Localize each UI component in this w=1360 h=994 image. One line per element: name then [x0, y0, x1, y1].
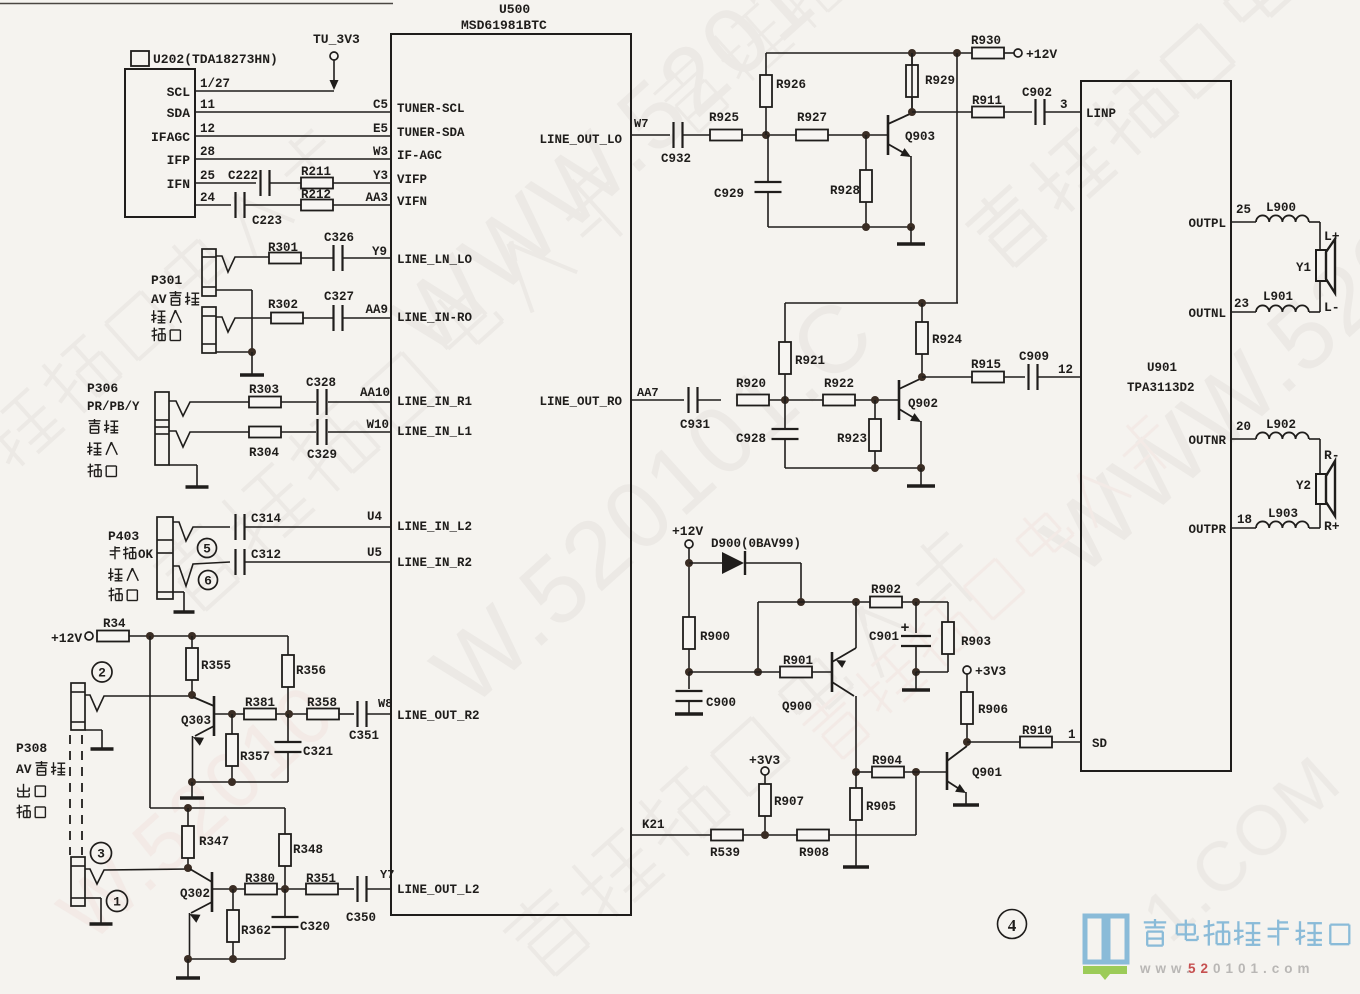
svg-text:R915: R915 [971, 358, 1001, 372]
resistor R302 [271, 313, 303, 324]
jack switch contact B [216, 317, 271, 332]
svg-text:OUTPL: OUTPL [1188, 217, 1226, 231]
power +12V Q903 [1014, 49, 1022, 57]
svg-text:R212: R212 [301, 188, 331, 202]
resistor R303 [249, 397, 281, 408]
svg-text:R381: R381 [245, 696, 275, 710]
svg-text:C932: C932 [661, 152, 691, 166]
svg-text:24: 24 [200, 191, 216, 205]
jack switch contact 6 [173, 562, 230, 586]
capacitor C929 [767, 135, 769, 182]
capacitor C326 [332, 245, 334, 271]
wire Q902 stage bottom [785, 467, 921, 469]
svg-text:+3V3: +3V3 [749, 753, 780, 768]
wire pin23 [1231, 311, 1256, 313]
dashed connector lines [69, 735, 71, 855]
svg-text:4: 4 [1008, 916, 1017, 935]
svg-text:C5: C5 [373, 98, 388, 112]
svg-text:+12V: +12V [672, 524, 703, 539]
ground P308 jack3 [85, 897, 101, 899]
ground P306 [169, 464, 197, 466]
svg-text:LINP: LINP [1086, 107, 1116, 121]
svg-text:R302: R302 [268, 298, 298, 312]
svg-text:R920: R920 [736, 377, 766, 391]
svg-text:C329: C329 [307, 448, 337, 462]
transistor Q302 [211, 872, 214, 912]
ground Q902 stage [920, 468, 922, 486]
inductor L902 [1256, 432, 1309, 439]
wire AA7 LINE_OUT_RO [631, 399, 684, 401]
connector P301 jack A [202, 249, 216, 296]
svg-text:R356: R356 [296, 664, 326, 678]
svg-text:AA3: AA3 [365, 191, 388, 205]
resistor R907 [759, 784, 771, 816]
ground Q302 stage [187, 959, 189, 978]
resistor R902 [870, 597, 902, 608]
svg-text:0101.com: 0101.com [1213, 961, 1315, 976]
svg-text:AA9: AA9 [365, 303, 388, 317]
resistor R357 [231, 714, 233, 735]
resistor R905 [855, 772, 857, 788]
svg-text:OUTNL: OUTNL [1188, 307, 1226, 321]
connector P306 [155, 392, 169, 465]
connector P403 [157, 517, 173, 599]
svg-text:IFN: IFN [167, 177, 190, 192]
ground C900 [688, 712, 690, 714]
capacitor C327 [332, 305, 334, 331]
wire Q902 emitter [920, 421, 922, 468]
resistor R351 [306, 884, 338, 895]
resistor R901 [780, 667, 812, 678]
jack switch contact R1 [169, 401, 249, 416]
node circled 3 [91, 843, 112, 864]
logo book icon [1085, 916, 1127, 962]
node circled 5 [198, 539, 217, 558]
connector P301 jack B [202, 307, 216, 353]
jack switch contact A [216, 256, 269, 272]
svg-text:R380: R380 [245, 872, 275, 886]
svg-text:C901: C901 [869, 630, 899, 644]
svg-text:LINE_IN_L2: LINE_IN_L2 [397, 520, 472, 534]
svg-text:C902: C902 [1022, 86, 1052, 100]
resistor R923 [874, 400, 876, 419]
svg-text:1: 1 [1068, 728, 1076, 742]
svg-text:C909: C909 [1019, 350, 1049, 364]
svg-text:12: 12 [1058, 363, 1073, 377]
svg-text:C351: C351 [349, 729, 379, 743]
svg-text:C320: C320 [300, 920, 330, 934]
wire +12V mid rail [785, 302, 958, 304]
svg-text:C928: C928 [736, 432, 766, 446]
wire up to Q901 base node [915, 772, 917, 835]
resistor R922 [823, 395, 855, 406]
capacitor C328 [316, 389, 318, 415]
svg-text:R930: R930 [971, 34, 1001, 48]
svg-text:1: 1 [113, 895, 121, 910]
capacitor C222 [259, 170, 261, 196]
resistor R915 [972, 372, 1004, 383]
transistor Q303 [213, 696, 216, 736]
wire Q902 collector [918, 373, 926, 381]
pin IFN wire 25 [195, 182, 256, 184]
svg-text:18: 18 [1237, 513, 1252, 527]
svg-text:R911: R911 [972, 94, 1002, 108]
resistor R347 [187, 808, 189, 826]
wire Q303 stage bottom [192, 781, 288, 783]
svg-text:LINE_IN_R1: LINE_IN_R1 [397, 395, 472, 409]
wire R905 to ground [855, 820, 857, 866]
svg-text:Y7: Y7 [380, 868, 394, 882]
svg-text:LINE_OUT_L2: LINE_OUT_L2 [397, 883, 480, 897]
svg-text:R923: R923 [837, 432, 867, 446]
wire AA10 LINE_IN_R1 [328, 401, 391, 403]
svg-text:C929: C929 [714, 187, 744, 201]
svg-text:R904: R904 [872, 754, 903, 768]
svg-text:U901: U901 [1147, 361, 1177, 375]
wire rail down to Q302 stage [149, 636, 151, 808]
svg-text:E5: E5 [373, 122, 388, 136]
svg-text:AV: AV [151, 292, 167, 307]
svg-text:12: 12 [200, 122, 215, 136]
svg-text:R900: R900 [700, 630, 730, 644]
jack switch contact 2 [85, 695, 192, 711]
IC U202 TDA18273HN box [125, 69, 195, 217]
svg-text:W7: W7 [634, 117, 648, 131]
svg-text:Y9: Y9 [372, 245, 387, 259]
svg-text:K21: K21 [642, 818, 665, 832]
svg-text:VIFN: VIFN [397, 195, 427, 209]
svg-text:LINE_OUT_R2: LINE_OUT_R2 [397, 709, 480, 723]
svg-text:R348: R348 [293, 843, 323, 857]
resistor R211 [301, 178, 333, 189]
wire W8 LINE_OUT_R2 [366, 713, 391, 715]
resistor R212 [301, 200, 333, 211]
svg-text:R+: R+ [1324, 519, 1340, 534]
resistor R356 [287, 636, 289, 655]
capacitor C902 [1034, 99, 1036, 125]
svg-text:SCL: SCL [167, 85, 191, 100]
svg-text:1/27: 1/27 [200, 77, 230, 91]
wire W10 LINE_IN_L1 [328, 431, 391, 433]
svg-text:IFP: IFP [167, 153, 191, 168]
speaker Y2 [1316, 474, 1326, 504]
svg-text:P308: P308 [16, 741, 47, 756]
svg-text:2: 2 [98, 666, 106, 681]
svg-text:R539: R539 [710, 846, 740, 860]
svg-text:P306: P306 [87, 381, 118, 396]
svg-text:Y3: Y3 [373, 169, 388, 183]
svg-text:TUNER-SDA: TUNER-SDA [397, 126, 465, 140]
resistor R921 [784, 374, 786, 400]
svg-text:L-: L- [1324, 300, 1340, 315]
svg-text:R355: R355 [201, 659, 231, 673]
svg-text:28: 28 [200, 145, 215, 159]
svg-text:6: 6 [204, 574, 212, 589]
svg-text:W3: W3 [373, 145, 388, 159]
capacitor C901 electrolytic [915, 602, 917, 633]
svg-text:SD: SD [1092, 737, 1108, 751]
resistor R911 [972, 107, 1004, 118]
wire diode to node [800, 563, 802, 602]
wire pin20 [1231, 438, 1256, 440]
svg-text:C312: C312 [251, 548, 281, 562]
svg-text:C328: C328 [306, 376, 336, 390]
wire pin25 [1231, 221, 1256, 223]
pin 24 wire [195, 204, 231, 206]
inductor L903 [1256, 521, 1309, 528]
connector P308 jack 3 [71, 857, 85, 906]
wire U4 LINE_IN_L2 [245, 526, 391, 528]
ground P403 [173, 591, 184, 593]
svg-text:PR/PB/Y: PR/PB/Y [87, 400, 140, 414]
svg-text:LINE_LN_LO: LINE_LN_LO [397, 253, 473, 267]
wire node down to R901 [757, 602, 759, 672]
svg-text:Q901: Q901 [972, 766, 1002, 780]
svg-text:TUNER-SCL: TUNER-SCL [397, 102, 465, 116]
svg-text:U202(TDA18273HN): U202(TDA18273HN) [153, 52, 278, 67]
transistor Q902 [898, 380, 901, 420]
svg-text:W10: W10 [366, 418, 389, 432]
wire Q302 stage bottom [188, 958, 285, 960]
jack switch contact 5 [173, 522, 230, 541]
svg-text:OUTNR: OUTNR [1188, 434, 1226, 448]
svg-text:C321: C321 [303, 745, 333, 759]
IC U901 TPA3113D2 box [1081, 81, 1231, 771]
wire rail to R347 R348 [150, 807, 285, 809]
svg-text:11: 11 [200, 98, 215, 112]
capacitor C931 [687, 387, 689, 413]
resistor R304 [249, 427, 281, 438]
pin IFAGC wire 12 [195, 135, 391, 137]
svg-text:R906: R906 [978, 703, 1008, 717]
svg-text:OK: OK [138, 548, 154, 562]
svg-text:L903: L903 [1268, 507, 1298, 521]
resistor R903 [947, 602, 949, 622]
resistor R34 [97, 631, 129, 642]
svg-text:R901: R901 [783, 654, 813, 668]
wire Y7 LINE_OUT_L2 [366, 888, 391, 890]
svg-text:LINE_OUT_LO: LINE_OUT_LO [539, 133, 622, 147]
svg-text:+3V3: +3V3 [975, 664, 1006, 679]
capacitor C932 [672, 122, 674, 148]
ground P301 [251, 352, 253, 375]
svg-text:R908: R908 [799, 846, 829, 860]
svg-text:R357: R357 [240, 750, 270, 764]
svg-text:C314: C314 [251, 512, 282, 526]
capacitor C321 [287, 714, 289, 742]
transistor Q901 [946, 752, 949, 790]
svg-text:3: 3 [97, 847, 105, 862]
svg-text:R34: R34 [103, 617, 126, 631]
wire Q903 emitter [910, 156, 912, 227]
svg-text:R929: R929 [925, 74, 955, 88]
wire node 602 rail [758, 601, 870, 603]
jack switch contact 3 [85, 869, 190, 884]
svg-text:LINE_OUT_RO: LINE_OUT_RO [539, 395, 622, 409]
wire Q303 emitter [192, 736, 194, 782]
svg-text:R910: R910 [1022, 724, 1052, 738]
svg-text:LINE_IN_R2: LINE_IN_R2 [397, 556, 472, 570]
svg-text:IFAGC: IFAGC [151, 130, 190, 145]
wire W7 LINE_OUT_LO [631, 134, 670, 136]
svg-text:5: 5 [203, 542, 211, 557]
svg-text:R905: R905 [866, 800, 896, 814]
capacitor C314 [234, 514, 236, 540]
svg-text:C900: C900 [706, 696, 736, 710]
ground C901 [915, 672, 917, 690]
resistor R925 [710, 130, 742, 141]
svg-text:U500: U500 [499, 2, 530, 17]
transistor Q903 [887, 115, 890, 155]
wire Q903 collector [911, 53, 913, 112]
svg-text:AA10: AA10 [360, 386, 390, 400]
wire pin12 [1038, 376, 1081, 378]
capacitor C350 [356, 876, 358, 902]
resistor R362 [232, 889, 234, 910]
wire Q302 base [212, 888, 246, 890]
svg-text:TPA3113D2: TPA3113D2 [1127, 381, 1195, 395]
capacitor C928 [784, 400, 786, 429]
svg-text:R907: R907 [774, 795, 804, 809]
svg-text:C223: C223 [252, 214, 282, 228]
svg-text:+12V: +12V [1026, 47, 1057, 62]
resistor R381 [244, 709, 276, 720]
svg-text:D900(0BAV99): D900(0BAV99) [711, 537, 801, 551]
svg-text:R921: R921 [795, 354, 825, 368]
pin IFP wire 28 [195, 158, 391, 160]
svg-text:R925: R925 [709, 111, 739, 125]
wire Y9 LINE_LN_LO [343, 257, 391, 259]
ground Q303 stage [191, 782, 193, 798]
svg-text:Y1: Y1 [1296, 261, 1311, 275]
svg-text:L901: L901 [1263, 290, 1293, 304]
svg-text:TU_3V3: TU_3V3 [313, 32, 360, 47]
svg-text:R211: R211 [301, 165, 331, 179]
resistor R358 [307, 709, 339, 720]
capacitor C329 [316, 419, 318, 445]
svg-text:OUTPR: OUTPR [1188, 523, 1226, 537]
svg-text:SDA: SDA [167, 106, 191, 121]
pin SDA wire 11 [195, 111, 391, 113]
svg-text:R347: R347 [199, 835, 229, 849]
svg-text:MSD61981BTC: MSD61981BTC [461, 18, 547, 33]
svg-text:R903: R903 [961, 635, 991, 649]
ground P308 jack2 [85, 729, 102, 731]
svg-text:3: 3 [1060, 98, 1068, 112]
node circled 2 [92, 662, 112, 682]
ground Q903 stage [910, 227, 912, 244]
svg-text:R351: R351 [306, 872, 336, 886]
wire Q901 emitter ground [965, 792, 967, 805]
svg-text:R362: R362 [241, 924, 271, 938]
svg-text:L902: L902 [1266, 418, 1296, 432]
svg-text:+: + [900, 620, 909, 637]
inductor L900 [1256, 215, 1309, 222]
diode D900 0BAV99 [689, 562, 722, 564]
svg-text:23: 23 [1234, 297, 1249, 311]
resistor R348 [284, 808, 286, 834]
svg-text:Q302: Q302 [180, 887, 210, 901]
wire +12V top rail [766, 52, 972, 54]
pin SCL wire 1/27 [195, 90, 334, 92]
resistor R926 [765, 106, 767, 135]
IC U500 MSD61981BTC box [391, 34, 631, 915]
wire Q900 emitter to rail [855, 602, 857, 648]
resistor R355 [191, 636, 193, 648]
svg-text:R922: R922 [824, 377, 854, 391]
svg-text:R303: R303 [249, 383, 279, 397]
svg-text:20: 20 [1236, 420, 1251, 434]
logo text jiadian weixiu ziliao wang [1144, 921, 1166, 923]
capacitor C320 [284, 889, 286, 917]
svg-text:AA7: AA7 [637, 386, 659, 400]
capacitor C351 [356, 701, 358, 727]
wire Q900 collector down [855, 696, 857, 772]
svg-text:IF-AGC: IF-AGC [397, 149, 443, 163]
svg-text:Q900: Q900 [782, 700, 812, 714]
svg-text:25: 25 [200, 169, 215, 183]
capacitor C223 [234, 192, 236, 218]
wire U5 LINE_IN_R2 [245, 561, 391, 563]
svg-text:Q902: Q902 [908, 397, 938, 411]
connector P308 jack 2 [71, 683, 85, 730]
wire Q302 emitter [189, 913, 191, 959]
svg-text:L900: L900 [1266, 201, 1296, 215]
svg-text:R928: R928 [830, 184, 860, 198]
svg-text:U5: U5 [367, 546, 382, 560]
wire Q903 stage bottom [768, 226, 911, 228]
svg-text:52: 52 [1188, 961, 1213, 976]
resistor R908 [797, 830, 829, 841]
scan border line [0, 3, 393, 5]
svg-text:C327: C327 [324, 290, 354, 304]
wire K21 [631, 834, 711, 836]
resistor R539 [711, 830, 743, 841]
node circled 1 [107, 891, 128, 912]
ground R905 [843, 865, 869, 869]
svg-text:C931: C931 [680, 418, 710, 432]
svg-text:VIFP: VIFP [397, 173, 427, 187]
resistor R929 [911, 53, 913, 65]
power +3V3 R906 [963, 666, 971, 674]
resistor R910 [967, 741, 1020, 743]
speaker Y1 [1316, 250, 1326, 281]
resistor R924 [921, 303, 923, 322]
svg-text:P301: P301 [151, 273, 182, 288]
resistor R930 [972, 48, 1004, 59]
resistor R906 [961, 692, 973, 724]
svg-text:Q903: Q903 [905, 130, 935, 144]
svg-text:LINE_IN-RO: LINE_IN-RO [397, 311, 473, 325]
resistor R900 [683, 617, 695, 649]
jack switch contact L1 [169, 431, 249, 447]
inductor L901 [1256, 305, 1309, 312]
resistor R927 [796, 130, 828, 141]
node circled 6 [199, 571, 218, 590]
capacitor C900 [688, 672, 690, 689]
resistor R301 [269, 253, 301, 264]
svg-text:C222: C222 [228, 169, 258, 183]
svg-text:P403: P403 [108, 529, 139, 544]
svg-text:AV: AV [16, 762, 32, 777]
wire +12V feed down [956, 53, 958, 303]
resistor R928 [865, 135, 867, 170]
capacitor C909 [1027, 364, 1029, 390]
svg-text:+12V: +12V [51, 631, 82, 646]
svg-text:R924: R924 [932, 333, 963, 347]
wire R901 row [689, 671, 780, 673]
svg-text:R902: R902 [871, 583, 901, 597]
